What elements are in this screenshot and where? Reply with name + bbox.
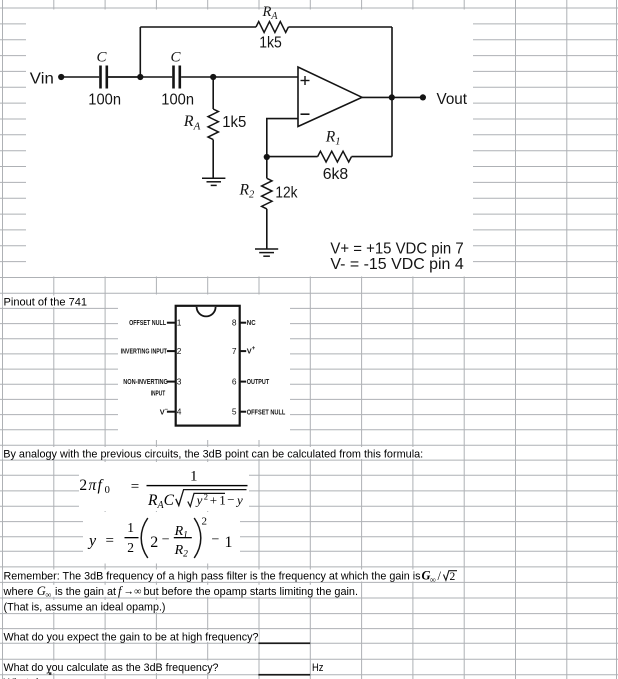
svg-text:−: − — [212, 533, 220, 548]
resistor R1 zigzag — [318, 151, 352, 162]
pin 5 lead — [239, 411, 246, 413]
svg-text:3: 3 — [177, 376, 182, 386]
svg-text:OFFSET NULL: OFFSET NULL — [247, 407, 286, 416]
svg-text:Pinout of the 741: Pinout of the 741 — [4, 296, 87, 308]
wire C1 to junction A — [108, 76, 140, 78]
capacitor C2 plates — [172, 66, 181, 89]
svg-text:7: 7 — [232, 346, 237, 356]
svg-text:1: 1 — [225, 534, 233, 551]
svg-text:−: − — [227, 492, 234, 507]
svg-text:V- = -15 VDC pin 4: V- = -15 VDC pin 4 — [330, 256, 463, 273]
svg-text:C: C — [171, 50, 182, 66]
svg-text:V+ = +15 VDC pin 7: V+ = +15 VDC pin 7 — [330, 240, 463, 257]
ground below RA shunt — [202, 178, 225, 185]
wire node B down to RA shunt — [212, 77, 214, 109]
svg-text:Hz: Hz — [312, 662, 324, 674]
pin 3 lead — [167, 381, 176, 383]
answer cell border (gain question) — [258, 642, 310, 644]
svg-text:(That is, assume an ideal opam: (That is, assume an ideal opamp.) — [4, 601, 166, 613]
svg-text:OFFSET NULL: OFFSET NULL — [129, 318, 166, 327]
svg-text:What do you expect the gain to: What do you expect the gain to be at hig… — [4, 631, 259, 643]
wire C2 to op-amp noninverting input — [181, 76, 298, 78]
svg-text:1: 1 — [219, 492, 226, 507]
IC DIP-8 package body — [176, 306, 240, 426]
svg-text:4: 4 — [177, 407, 182, 417]
formula 1 white background — [79, 462, 249, 511]
IC pin-1 notch — [197, 307, 216, 317]
pin 6 lead — [239, 381, 246, 383]
node Vin terminal — [58, 74, 64, 80]
ground below R2 — [255, 249, 278, 256]
svg-text:but before the opamp starts li: but before the opamp starts limiting the… — [144, 586, 359, 598]
svg-text:NON-INVERTING: NON-INVERTING — [123, 377, 168, 386]
pin 8 lead — [239, 322, 246, 324]
svg-text:By analogy with the previous c: By analogy with the previous circuits, t… — [3, 449, 423, 461]
node Vout terminal — [420, 94, 426, 100]
node A junction dot — [137, 74, 143, 80]
wire top feedback left segment — [140, 26, 256, 28]
wire node A up to top feedback — [139, 27, 141, 77]
wire top feedback right segment — [288, 26, 392, 28]
wire R2 to ground — [266, 209, 268, 249]
svg-text:where: where — [2, 586, 33, 598]
svg-text:8: 8 — [232, 318, 237, 328]
schematic image white background — [26, 10, 473, 277]
capacitor C1 plates — [99, 66, 108, 89]
svg-text:INVERTING INPUT: INVERTING INPUT — [121, 347, 168, 356]
svg-text:1: 1 — [127, 520, 134, 535]
resistor RA top feedback zigzag — [256, 22, 288, 33]
svg-text:y: y — [235, 493, 243, 508]
svg-text:1: 1 — [190, 469, 198, 485]
wire junction A to C2 — [108, 76, 172, 78]
svg-text:G: G — [37, 584, 46, 598]
svg-text:1k5: 1k5 — [259, 34, 282, 51]
op-amp inverting - marker — [301, 113, 310, 115]
answer cell border (frequency question) — [258, 674, 310, 676]
op-amp U1 triangle — [298, 67, 362, 127]
svg-text:Vin: Vin — [30, 70, 54, 87]
wire node C to R1 — [267, 156, 318, 158]
wire inverting input to node C — [267, 119, 298, 157]
svg-text:NC: NC — [247, 318, 256, 327]
svg-text:100n: 100n — [88, 91, 121, 108]
formula f0 fraction bar — [147, 485, 248, 486]
resistor RA shunt zigzag — [208, 109, 218, 140]
svg-text:is the gain at: is the gain at — [55, 586, 116, 598]
svg-text:2: 2 — [450, 571, 456, 583]
wire R1 to feedback vertical — [352, 156, 393, 158]
svg-text:/: / — [438, 569, 442, 583]
svg-text:∞: ∞ — [430, 574, 436, 584]
svg-text:INPUT: INPUT — [151, 388, 166, 397]
resistor R2 zigzag — [262, 178, 272, 209]
svg-text:+: + — [210, 492, 217, 507]
node output junction dot — [389, 94, 395, 100]
wire op-amp output to Vout — [362, 96, 423, 98]
svg-text:OUTPUT: OUTPUT — [247, 377, 270, 386]
wire feedback vertical down to output node and R1 — [391, 27, 393, 157]
svg-text:→∞: →∞ — [124, 586, 142, 597]
pin 1 lead — [167, 322, 176, 324]
formula f0 outer radical — [176, 490, 247, 506]
svg-text:100n: 100n — [161, 91, 194, 108]
svg-text:C: C — [97, 50, 108, 66]
formula y close paren — [194, 518, 201, 558]
wire RA shunt to ground — [212, 140, 214, 178]
pin 7 lead — [239, 350, 246, 352]
svg-text:−: − — [162, 533, 170, 548]
svg-text:2: 2 — [150, 534, 158, 551]
stray glyph fragment on bottom gridline — [49, 672, 52, 675]
pinout image white background — [118, 295, 290, 441]
formula y open paren — [141, 518, 148, 558]
svg-text:5: 5 — [232, 407, 237, 417]
svg-text:∞: ∞ — [46, 589, 52, 599]
svg-text:=: = — [131, 479, 139, 495]
node B junction dot — [210, 74, 216, 80]
svg-text:2: 2 — [127, 540, 134, 555]
svg-text:Vout: Vout — [437, 91, 468, 108]
formula f0 inner radical — [188, 493, 225, 506]
pin 4 lead — [167, 411, 176, 413]
svg-text:2: 2 — [204, 492, 208, 502]
svg-text:2: 2 — [177, 346, 182, 356]
svg-text:2: 2 — [202, 516, 208, 528]
svg-text:=: = — [106, 533, 114, 549]
svg-text:6k8: 6k8 — [323, 166, 349, 183]
wire node C down to R2 — [266, 157, 268, 178]
svg-text:12k: 12k — [275, 184, 298, 201]
formula 2 white background — [83, 512, 240, 564]
svg-text:What do you calculate as the 3: What do you calculate as the 3dB frequen… — [4, 662, 219, 674]
pin 2 lead — [167, 350, 176, 352]
svg-text:y: y — [87, 532, 97, 549]
op-amp noninverting + marker — [301, 76, 310, 85]
svg-text:y: y — [195, 493, 203, 508]
node C junction dot — [264, 154, 270, 160]
svg-text:6: 6 — [232, 376, 237, 386]
svg-text:Remember: The 3dB frequency of: Remember: The 3dB frequency of a high pa… — [4, 571, 421, 583]
wire Vin to C1 — [61, 76, 99, 78]
svg-text:1: 1 — [177, 318, 182, 328]
svg-text:1k5: 1k5 — [222, 114, 246, 131]
